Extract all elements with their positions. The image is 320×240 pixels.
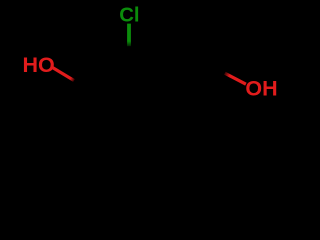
wire: O-C1 half-bond left (red) (51, 67, 74, 81)
svg-text:HO: HO (23, 53, 55, 77)
svg-text:Cl: Cl (119, 5, 139, 27)
wire: C7-O half-bond right (red) (225, 73, 246, 84)
svg-text:OH: OH (245, 77, 277, 101)
wire: C2-Cl half-bond (green, vertical) (127, 24, 131, 47)
